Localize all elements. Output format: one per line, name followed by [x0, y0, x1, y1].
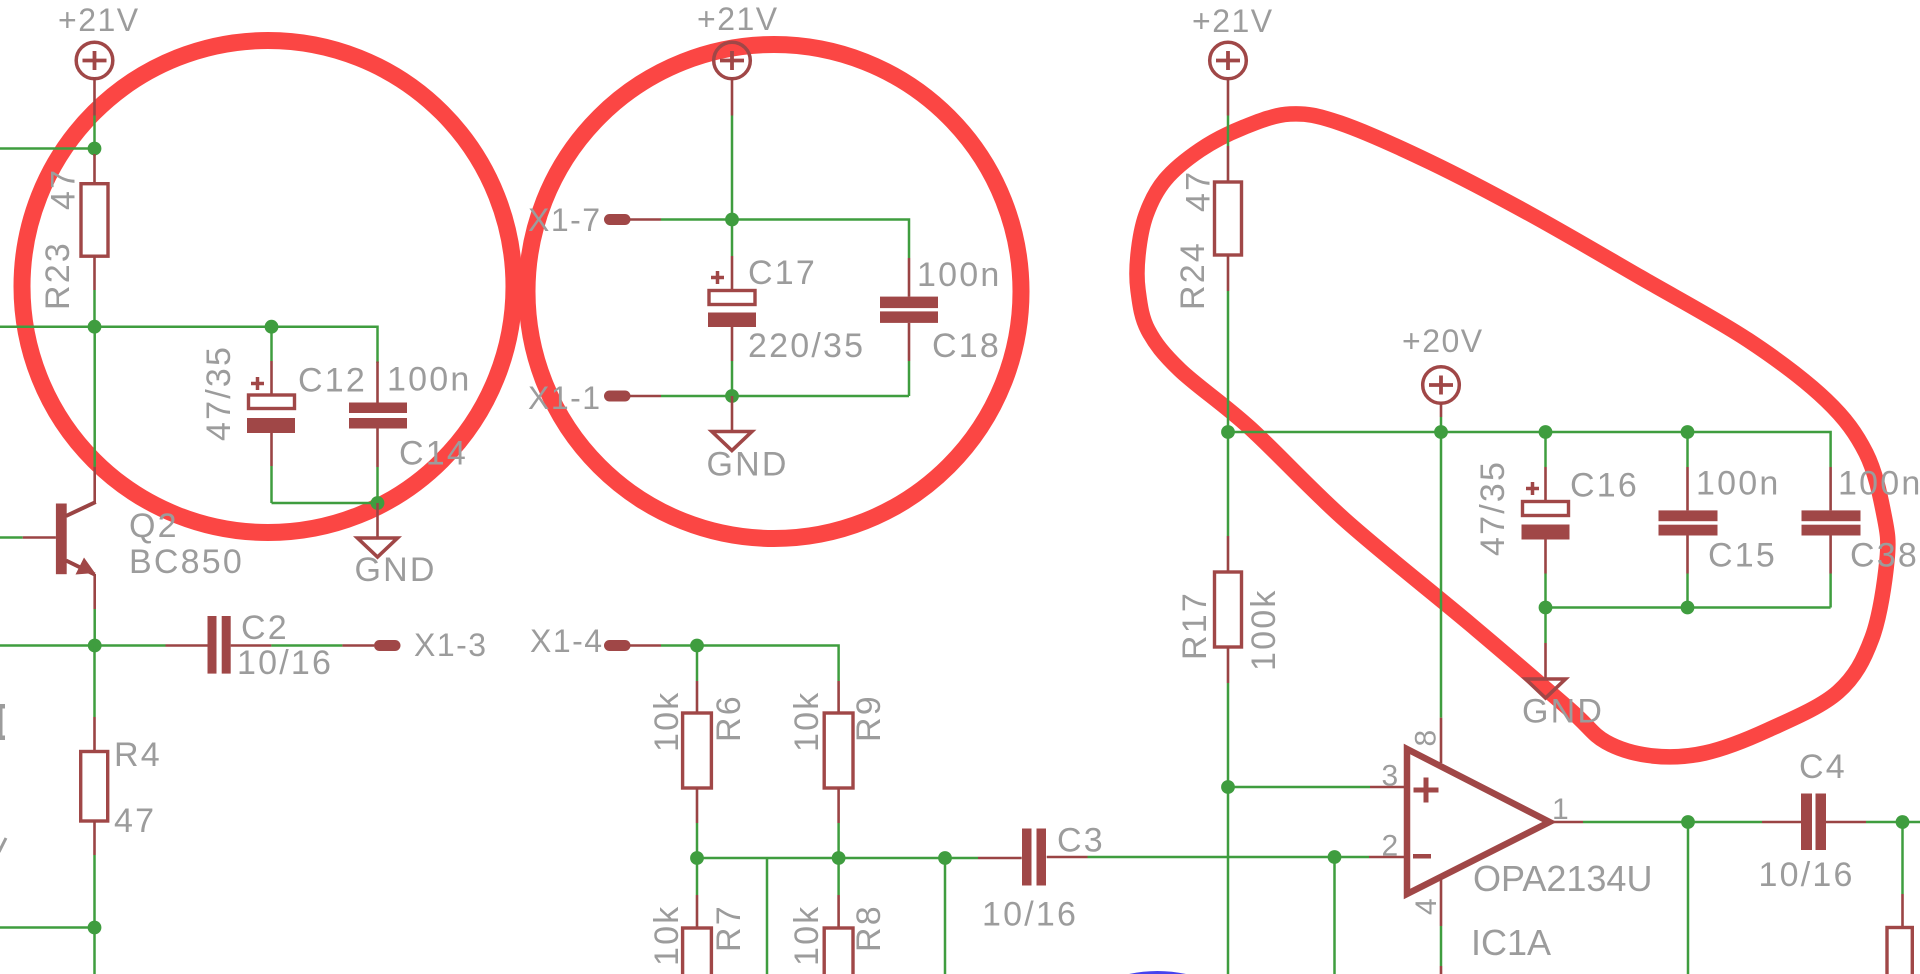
svg-text:10k: 10k	[788, 905, 826, 966]
svg-text:C2: C2	[241, 609, 289, 647]
svg-text:GND: GND	[707, 446, 789, 484]
svg-text:C16: C16	[1570, 467, 1639, 505]
wire after C4	[1903, 821, 1920, 824]
wire X1-1 rail	[732, 395, 909, 398]
svg-text:+21V: +21V	[697, 1, 779, 37]
svg-text:10/16: 10/16	[982, 896, 1078, 934]
wire bottom-left row	[0, 926, 95, 929]
pin X1-7	[528, 202, 732, 238]
resistor R8 (10k)	[788, 858, 888, 974]
capacitor C14 (100n)	[349, 361, 471, 504]
wire net +21V left	[0, 147, 95, 150]
wire branch down x1688	[1687, 822, 1690, 974]
svg-text:X1-1: X1-1	[528, 380, 602, 416]
pin X1-1	[528, 380, 732, 416]
node junction C16 bottom	[1539, 601, 1553, 615]
power +20V symbol	[1402, 323, 1484, 432]
svg-text:4: 4	[1410, 898, 1443, 915]
svg-text:C38: C38	[1850, 537, 1919, 575]
node junction pin1	[1681, 815, 1695, 829]
svg-text:X1-3: X1-3	[414, 627, 488, 663]
svg-text:47: 47	[45, 168, 83, 210]
node junction C15 bottom	[1681, 601, 1695, 615]
wire +21V mid down	[731, 116, 734, 220]
svg-text:10/16: 10/16	[237, 644, 333, 682]
node junction rail x1441	[1434, 425, 1448, 439]
node junction X1-7	[725, 213, 739, 227]
resistor R24	[1174, 116, 1242, 433]
wire branch down x1902	[1901, 822, 1904, 894]
capacitor C12 (electrolytic 47/35)	[200, 327, 367, 503]
svg-text:R17: R17	[1176, 591, 1214, 660]
svg-text:R6: R6	[710, 694, 748, 742]
svg-text:C14: C14	[399, 435, 468, 473]
node junction emitter row	[88, 639, 102, 653]
svg-text:+21V: +21V	[58, 2, 140, 38]
resistor R4	[81, 646, 162, 974]
svg-text:47: 47	[1180, 170, 1218, 212]
svg-text:R23: R23	[39, 241, 77, 310]
svg-text:10/16: 10/16	[1759, 856, 1855, 894]
wire R6/R9 bottom row	[697, 857, 978, 860]
svg-text:C4: C4	[1799, 748, 1847, 786]
wire R17 column down	[1227, 787, 1230, 974]
svg-text:+21V: +21V	[1192, 3, 1274, 39]
capacitor C18 (100n)	[880, 256, 1001, 396]
svg-text:220/35: 220/35	[748, 327, 865, 365]
ground GND (right)	[1522, 608, 1604, 731]
op-amp IC1A OPA2134U	[1382, 730, 1653, 963]
svg-text:3: 3	[1382, 760, 1399, 793]
node junction x945	[938, 851, 952, 865]
pin X1-3	[374, 627, 488, 663]
svg-text:R7: R7	[710, 904, 748, 952]
svg-text:47: 47	[114, 802, 156, 840]
red annotation circle 2	[527, 45, 1021, 539]
pin X1-4	[530, 623, 697, 659]
red annotation circle 1	[22, 41, 514, 533]
node junction rail x94	[88, 320, 102, 334]
wire pin 3	[1228, 786, 1405, 789]
wire pin 4 column	[1440, 878, 1443, 974]
svg-text:R4: R4	[114, 736, 162, 774]
capacitor C38 (100n)	[1802, 465, 1920, 608]
svg-text:2: 2	[1382, 830, 1399, 863]
ground GND (left)	[355, 503, 437, 589]
svg-text:OPA2134U: OPA2134U	[1473, 858, 1652, 899]
wire base rail	[0, 327, 378, 362]
node junction rail x271	[265, 320, 279, 334]
node junction R9 bottom	[832, 851, 846, 865]
svg-text:47/35: 47/35	[200, 345, 238, 441]
svg-text:C17: C17	[748, 254, 817, 292]
resistor R23	[39, 154, 108, 310]
svg-text:100n: 100n	[1838, 465, 1920, 503]
wire pin 2 row	[1088, 856, 1406, 859]
svg-text:10k: 10k	[648, 905, 686, 966]
node junction R6 bottom	[690, 851, 704, 865]
power +21V symbol (right)	[1192, 3, 1274, 116]
node junction rail x1687	[1681, 425, 1695, 439]
svg-text:100n: 100n	[387, 361, 471, 399]
svg-text:GND: GND	[355, 551, 437, 589]
capacitor C2 (10/16)	[166, 609, 375, 682]
svg-text:R9: R9	[850, 694, 888, 742]
svg-text:10k: 10k	[788, 691, 826, 752]
transistor Q2 BC850	[0, 327, 244, 646]
wire X1-7 rail to C18	[732, 220, 909, 259]
node junction X1-1	[725, 389, 739, 403]
power +21V symbol (left)	[58, 2, 140, 116]
wire branch down x1334	[1333, 857, 1336, 974]
svg-text:100n: 100n	[1696, 465, 1780, 503]
wire +20V top rail	[1228, 432, 1831, 467]
capacitor C4 (10/16)	[1688, 748, 1903, 894]
node junction bottom-left	[88, 921, 102, 935]
svg-text:IC1A: IC1A	[1471, 922, 1551, 963]
node junction rail x1228	[1221, 425, 1235, 439]
wire bottom rail C12-C14	[272, 502, 378, 505]
wire branch down at 767	[766, 858, 769, 974]
svg-text:8: 8	[1410, 730, 1443, 747]
svg-text:C3: C3	[1057, 822, 1105, 860]
capacitor C16 (electrolytic 47/35)	[1474, 432, 1639, 608]
wire branch down at 945	[944, 858, 947, 974]
svg-text:R24: R24	[1174, 241, 1212, 310]
resistor R9 (10k)	[788, 681, 888, 858]
wire X1-4 row to R9 column	[697, 646, 839, 682]
power +21V symbol (middle)	[697, 1, 779, 116]
svg-text:+20V: +20V	[1402, 323, 1484, 359]
svg-text:C15: C15	[1708, 537, 1777, 575]
svg-text:BC850: BC850	[129, 543, 244, 581]
resistor R6 (10k)	[648, 646, 748, 859]
node junction pin3 row	[1221, 780, 1235, 794]
capacitor C17 (electrolytic 220/35)	[708, 220, 865, 397]
ground GND (middle)	[707, 396, 789, 484]
wire bottom rail C16-C38	[1546, 606, 1831, 609]
resistor (partial, bottom right)	[1901, 894, 1904, 928]
resistor R7 (10k)	[648, 858, 748, 974]
wire pin 1 to C4	[1550, 821, 1688, 824]
svg-text:10k: 10k	[648, 691, 686, 752]
wire pin 8 column	[1440, 432, 1443, 763]
wire C2 row	[0, 644, 166, 647]
node junction C14 bottom	[371, 496, 385, 510]
svg-text:C18: C18	[932, 327, 1001, 365]
red annotation stadium	[1137, 114, 1888, 757]
stray text fragment left edge	[0, 704, 6, 852]
svg-text:Q2: Q2	[129, 507, 179, 545]
node junction rail x1545	[1539, 425, 1553, 439]
svg-text:R8: R8	[850, 904, 888, 952]
capacitor C3 (10/16)	[978, 822, 1105, 934]
resistor R17 (100k)	[1176, 432, 1283, 787]
svg-text:100n: 100n	[917, 256, 1001, 294]
wire R23 to rail	[93, 290, 96, 327]
svg-text:GND: GND	[1522, 693, 1604, 731]
node junction x1902	[1896, 815, 1910, 829]
node junction pin2 row	[1328, 850, 1342, 864]
svg-text:X1-4: X1-4	[530, 623, 604, 659]
capacitor C15 (100n)	[1659, 432, 1781, 608]
node junction left rail top	[88, 142, 102, 156]
svg-text:47/35: 47/35	[1474, 460, 1512, 556]
svg-text:C12: C12	[298, 362, 367, 400]
node junction X1-4	[690, 639, 704, 653]
svg-text:100k: 100k	[1245, 588, 1283, 671]
svg-text:X1-7: X1-7	[528, 202, 602, 238]
